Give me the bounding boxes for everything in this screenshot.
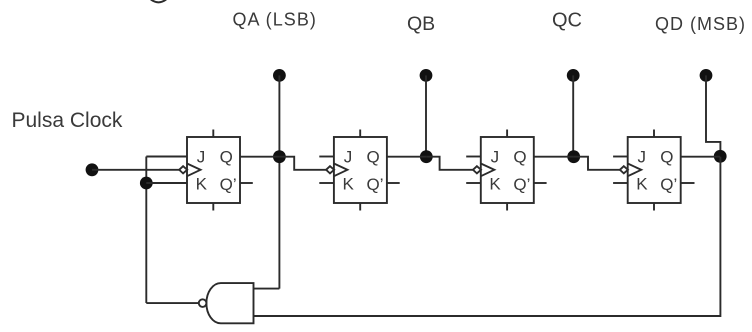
flip-flop U1 pin labels [196,147,237,194]
svg-text:Q: Q [513,147,526,166]
NAND gate G1 output bubble [199,299,207,307]
flip-flop U4 pin labels [636,147,677,194]
svg-text:K: K [489,175,501,194]
cropped letter fragment top edge [151,0,166,2]
node QD terminal [700,69,713,82]
svg-text:Q’: Q’ [367,175,384,194]
svg-text:Pulsa Clock: Pulsa Clock [12,109,123,132]
svg-text:QA (LSB): QA (LSB) [233,10,317,30]
svg-text:Q: Q [220,147,233,166]
flip-flop U2 pin labels [343,147,384,194]
flip-flop U4 [613,130,694,211]
node junction feedback/K [140,177,153,190]
svg-text:K: K [196,175,208,194]
svg-text:J: J [197,147,206,166]
wire feedback to J of FF1 [146,156,187,158]
wire FF2 Q output [387,156,426,158]
node junction QB / FF2 Q [420,150,433,163]
wire QC vertical [572,75,574,156]
wire feedback to K of FF1 [146,182,187,184]
svg-text:Q’: Q’ [220,175,237,194]
wire FF3 Q output [534,156,574,158]
wire NAND output feedback vertical [145,157,147,304]
node junction QD / FF4 Q [714,150,727,163]
wire FF3 Q to FF4 clock [574,157,620,170]
wire FF4 Q output [681,156,721,158]
flip-flop U1 [179,130,253,211]
flip-flop U2 [319,130,399,211]
NAND gate G1 body [206,283,253,323]
svg-text:Q’: Q’ [513,175,530,194]
wire QD down to NAND input [254,157,721,316]
svg-text:QB: QB [407,13,435,35]
wire FF1 Q output [240,156,279,158]
wire NAND output to feedback [146,302,199,304]
node QB terminal [420,69,433,82]
svg-text:K: K [343,175,355,194]
svg-text:QD (MSB): QD (MSB) [655,14,746,34]
node QA terminal [273,69,286,82]
svg-text:Q: Q [660,147,673,166]
wire FF2 Q to FF3 clock [426,157,473,170]
node junction QC / FF3 Q [567,150,580,163]
node QC terminal [567,69,580,82]
node Pulsa Clock terminal [86,163,99,176]
wire QD terminal jog to FF4 Q [706,75,720,156]
svg-text:QC: QC [552,9,582,31]
svg-text:K: K [636,175,648,194]
wire QA to NAND top input [254,288,280,290]
svg-text:Q’: Q’ [660,175,677,194]
svg-text:Q: Q [367,147,380,166]
wire QA vertical [278,75,280,288]
wire QB vertical [425,75,427,156]
flip-flop U3 [466,130,546,211]
svg-text:J: J [491,147,500,166]
flip-flop U3 pin labels [489,147,530,194]
wire FF1 Q to FF2 clock [279,157,326,170]
svg-text:J: J [638,147,647,166]
wire clock source to FF1 clock [92,169,179,171]
svg-text:J: J [344,147,353,166]
node junction QA / FF1 Q [273,150,286,163]
